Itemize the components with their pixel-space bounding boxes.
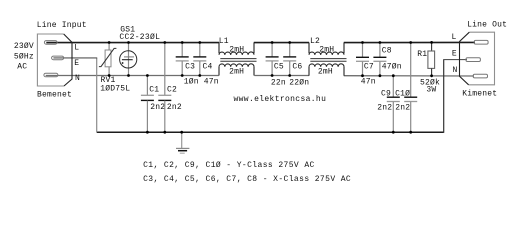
label Line Input (37, 21, 87, 30)
watermark www.elektroncsa.hu (234, 95, 327, 104)
note Y-Class line (143, 161, 315, 170)
junction C9 top (392, 74, 395, 77)
connector J1 input body (37, 34, 72, 86)
label C2 (167, 85, 177, 94)
svg-text:2mH: 2mH (318, 68, 333, 77)
value CC2-230L (119, 33, 160, 42)
wire N bus segment 1 (46, 75, 219, 77)
connector J1 pin N slot (44, 73, 58, 77)
label C4 (203, 63, 213, 72)
value C4 47n (204, 78, 219, 87)
wire E input horizontal (53, 57, 97, 59)
label 230V (14, 42, 34, 51)
junction C8 top (379, 41, 382, 44)
label GS1 (120, 26, 135, 35)
pin label L output (452, 33, 457, 42)
junction C1 bottom (146, 131, 149, 134)
wire E earth bottom line (97, 131, 444, 133)
label R1 (417, 50, 427, 59)
svg-text:C6: C6 (292, 63, 302, 72)
svg-text:E: E (452, 49, 457, 58)
svg-text:2n2: 2n2 (395, 103, 410, 112)
wire E output vertical (443, 60, 445, 133)
label C7 (364, 62, 374, 71)
pin label L input (74, 44, 79, 53)
pin label E output (452, 49, 457, 58)
wire E input vertical (96, 58, 98, 132)
connector J2 pin L slot (474, 40, 488, 44)
svg-text:2mH: 2mH (319, 46, 334, 55)
wire L bus segment 2 (254, 42, 309, 44)
value L2 2mH upper (319, 46, 334, 55)
label C6 (292, 63, 302, 72)
junction C6 top (288, 41, 291, 44)
svg-text:2n2: 2n2 (167, 103, 182, 112)
junction GS1 top (127, 41, 130, 44)
value C1 2n2 (150, 103, 165, 112)
surge arrester GS1 (120, 43, 137, 76)
svg-text:L: L (74, 44, 79, 53)
note X-Class line (143, 175, 351, 184)
svg-text:5ØHz: 5ØHz (14, 52, 34, 61)
svg-text:C1Ø: C1Ø (395, 90, 410, 99)
svg-text:N: N (75, 74, 80, 83)
junction C2 bottom (163, 131, 166, 134)
label 50Hz (14, 52, 34, 61)
svg-text:AC: AC (17, 63, 27, 72)
ground (176, 132, 189, 153)
svg-text:1ØD75L: 1ØD75L (100, 84, 130, 93)
svg-text:C1, C2, C9, C1Ø - Y-Class 275V: C1, C2, C9, C1Ø - Y-Class 275V AC (143, 161, 315, 170)
label C1 (149, 85, 159, 94)
value C7 47n (361, 77, 376, 86)
label AC (17, 63, 27, 72)
label Line Out (467, 21, 507, 30)
svg-text:2n2: 2n2 (150, 103, 165, 112)
capacitor C5 (266, 43, 279, 76)
capacitor C1 (141, 76, 154, 133)
capacitor C4 (193, 43, 206, 76)
junction C8 bottom (379, 74, 382, 77)
value R1 3W (426, 86, 436, 95)
svg-text:Kimenet: Kimenet (462, 89, 497, 98)
varistor RV1 (99, 43, 117, 76)
junction C3 top (181, 41, 184, 44)
svg-text:C1: C1 (149, 85, 159, 94)
svg-text:CC2-23ØL: CC2-23ØL (119, 33, 160, 42)
junction C10 bottom (409, 131, 412, 134)
label C5 (274, 63, 284, 72)
label RV1 (101, 76, 116, 85)
label Bemenet (37, 90, 72, 99)
label C10 (395, 90, 410, 99)
wire L bus segment 3 (344, 41, 475, 43)
svg-text:47n: 47n (361, 77, 376, 86)
junction C2 top (163, 41, 166, 44)
svg-text:23ØV: 23ØV (14, 42, 34, 51)
junction GS1 bottom (127, 74, 130, 77)
value L1 2mH lower (229, 68, 244, 77)
svg-text:C3: C3 (185, 63, 195, 72)
svg-text:C3, C4, C5, C6, C7, C8 - X-Cla: C3, C4, C5, C6, C7, C8 - X-Class 275V AC (143, 175, 351, 184)
junction C4 top (198, 41, 201, 44)
label L2 (310, 37, 320, 46)
junction C6 bottom (288, 74, 291, 77)
pin label N input (75, 74, 80, 83)
svg-text:E: E (74, 59, 79, 68)
label C8 (382, 46, 392, 55)
label C9 (381, 90, 391, 99)
wire E output horizontal (443, 59, 467, 61)
value L1 2mH upper (229, 46, 244, 55)
svg-text:C4: C4 (203, 63, 213, 72)
value L2 2mH lower (318, 68, 333, 77)
junction C5 top (271, 41, 274, 44)
junction RV1 top (108, 41, 111, 44)
connector J1 pin L slot (44, 41, 57, 45)
junction C5 bottom (271, 74, 274, 77)
junction C3 bottom (181, 74, 184, 77)
svg-text:C8: C8 (382, 46, 392, 55)
value C10 2n2 (395, 103, 410, 112)
value C9 2n2 (377, 103, 392, 112)
resistor R1 (428, 43, 435, 76)
value 10D75L (100, 84, 130, 93)
svg-text:2n2: 2n2 (377, 103, 392, 112)
svg-text:N: N (453, 66, 458, 75)
connector J1 pin E slot (52, 56, 64, 60)
wire N bus segment 2 (254, 75, 309, 77)
value C8 470n (382, 62, 402, 71)
svg-text:R1: R1 (417, 50, 427, 59)
junction C10 top (409, 41, 412, 44)
svg-text:Bemenet: Bemenet (37, 90, 72, 99)
label C3 (185, 63, 195, 72)
junction R1 top (430, 41, 433, 44)
capacitor C2 (158, 43, 171, 133)
capacitor C8 (373, 43, 386, 76)
junction C4 bottom (198, 74, 201, 77)
connector J2 pin E slot (466, 58, 480, 62)
junction C7 bottom (361, 74, 364, 77)
label Kimenet (462, 89, 497, 98)
svg-text:3W: 3W (426, 86, 436, 95)
label L1 (219, 37, 229, 46)
capacitor C3 (176, 43, 189, 76)
svg-text:C7: C7 (364, 62, 374, 71)
junction RV1 bottom (108, 74, 111, 77)
svg-text:L: L (452, 33, 457, 42)
capacitor C9 (387, 76, 400, 133)
svg-text:www.elektroncsa.hu: www.elektroncsa.hu (234, 95, 327, 104)
svg-text:L1: L1 (219, 37, 229, 46)
svg-text:47Øn: 47Øn (382, 62, 402, 71)
value C6 220n (289, 79, 309, 88)
junction C7 top (361, 41, 364, 44)
pin label N output (453, 66, 458, 75)
connector J2 pin N slot (473, 74, 487, 78)
svg-text:2mH: 2mH (229, 46, 244, 55)
capacitor C7 (356, 43, 369, 76)
capacitor C6 (283, 43, 296, 76)
choke L2 (309, 43, 347, 76)
svg-text:22n: 22n (271, 79, 286, 88)
svg-text:47n: 47n (204, 78, 219, 87)
value C2 2n2 (167, 103, 182, 112)
junction C9 bottom (392, 131, 395, 134)
wire N bus segment 3 (344, 75, 474, 77)
svg-text:C2: C2 (167, 85, 177, 94)
svg-text:Line Input: Line Input (37, 21, 87, 30)
svg-text:2mH: 2mH (229, 68, 244, 77)
junction C1 top (146, 74, 149, 77)
choke L1 (219, 43, 257, 76)
capacitor C10 (404, 43, 417, 133)
value C5 22n (271, 79, 286, 88)
svg-text:22Øn: 22Øn (289, 79, 309, 88)
svg-text:Line Out: Line Out (467, 21, 507, 30)
svg-text:C9: C9 (381, 90, 391, 99)
svg-text:C5: C5 (274, 63, 284, 72)
junction R1 bottom (430, 74, 433, 77)
value R1 520k (420, 79, 440, 88)
value C3 10n (184, 78, 199, 87)
junction ground (180, 131, 183, 134)
connector J2 output body (460, 32, 495, 85)
svg-text:1Øn: 1Øn (184, 78, 199, 87)
pin label E input (74, 59, 79, 68)
wire L bus segment 1 (46, 42, 219, 44)
